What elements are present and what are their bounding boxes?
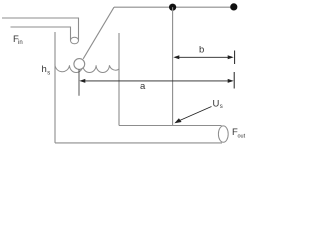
node dot left [169, 4, 176, 11]
inlet pipe upper wall [2, 18, 79, 41]
dimension b end tick [234, 51, 236, 65]
label a [140, 81, 146, 92]
svg-text:a: a [140, 81, 146, 92]
tank bottom / outlet pipe lower wall [55, 142, 222, 144]
node dot right [230, 3, 237, 10]
svg-text:U: U [213, 99, 220, 110]
inlet pipe mouth ellipse [71, 37, 79, 44]
U_s pointer arrowhead [174, 118, 181, 123]
dimension b arrow [175, 56, 232, 58]
outlet pipe upper wall [119, 125, 222, 127]
dimension a left arrowhead [79, 79, 85, 83]
label U_s [213, 99, 223, 111]
svg-text:in: in [18, 40, 23, 46]
svg-text:h: h [42, 64, 47, 75]
label F_in [13, 34, 23, 46]
dimension a end tick [233, 72, 235, 89]
lever horizontal wire [114, 6, 234, 8]
svg-text:out: out [238, 134, 246, 140]
dimension a right arrowhead [228, 79, 234, 83]
svg-text:s: s [220, 104, 223, 110]
tank inner right wall [118, 33, 120, 126]
vertical dropline wire [172, 7, 174, 125]
label F_out [232, 127, 246, 140]
label b [199, 45, 204, 56]
float stem [78, 70, 80, 96]
svg-text:s: s [47, 70, 50, 76]
lever diagonal link [83, 7, 114, 59]
outlet pipe mouth ellipse [218, 126, 228, 142]
inlet pipe lower wall [11, 27, 71, 41]
label h_s [42, 64, 51, 76]
dimension a arrow [81, 80, 232, 82]
dimension b right arrowhead [228, 55, 234, 59]
svg-text:b: b [199, 45, 204, 56]
dimension b left arrowhead [173, 55, 179, 59]
tank left wall [54, 32, 56, 143]
water surface wavy line [55, 63, 119, 72]
U_s pointer arrow [179, 107, 212, 122]
float circle [74, 59, 85, 70]
